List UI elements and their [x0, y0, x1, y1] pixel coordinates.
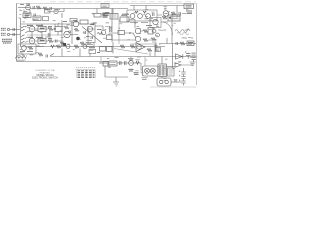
wire: [97, 9, 113, 14]
cathode box: [107, 35, 113, 40]
line cap Cb: [125, 61, 127, 65]
resistor R25: [136, 62, 140, 65]
wire vertical x172: [171, 14, 173, 57]
tube V9b: [135, 36, 140, 41]
top-left oscillator cluster: [18, 4, 48, 18]
dark label: [186, 11, 192, 13]
wire: [177, 9, 192, 18]
tube V7: [73, 21, 79, 27]
wire y44: [130, 43, 155, 45]
wire: [10, 29, 20, 31]
wire: [26, 47, 44, 57]
capacitor C15: [46, 55, 48, 58]
wire: [176, 6, 178, 9]
multivibrator box: [127, 6, 184, 23]
wire: [134, 6, 162, 16]
stage box B2: [38, 39, 46, 44]
connector marks: [186, 5, 192, 7]
resistor box R12: [80, 20, 88, 24]
extra cap: [69, 23, 93, 34]
capacitor C10: [84, 31, 86, 34]
wire y35: [27, 34, 62, 36]
resistor R6: [135, 11, 146, 13]
label 4M: [89, 47, 95, 49]
resistor R3: [43, 7, 48, 10]
resistor R19: [180, 42, 185, 45]
voltage label B: [134, 73, 139, 75]
top-middle components: [94, 4, 118, 20]
tube V11: [22, 46, 27, 51]
ext trig label block: [2, 39, 12, 43]
wire vertical x72: [72, 20, 88, 44]
fuse marks: [110, 63, 116, 65]
resistor R15: [97, 33, 103, 35]
wire: [112, 20, 157, 41]
stage box upper: [86, 43, 94, 47]
label VERT INPUT: [1, 28, 6, 30]
rectifier tube V15: [129, 61, 134, 66]
potentiometer R2: [23, 13, 31, 18]
input jack J1: [1, 28, 20, 31]
capacitor C5: [179, 12, 181, 16]
tube V4: [163, 11, 169, 17]
capacitor C4: [153, 13, 155, 16]
resistor R23: [74, 45, 79, 48]
label EXT TRIG INPUT: [2, 39, 12, 43]
extra marks: [63, 21, 102, 37]
wire bus y56: [50, 56, 197, 58]
table header dashes: [76, 67, 95, 69]
squiggle lower: [177, 32, 189, 35]
wire vertical x116: [115, 77, 117, 82]
sync box: [45, 10, 51, 14]
resistor R1: [36, 6, 41, 9]
tube V9a: [135, 28, 140, 33]
tube element marks: [31, 29, 34, 41]
switch contacts col2: [25, 26, 28, 43]
table text rows: [78, 71, 95, 78]
border frame left: [16, 4, 18, 62]
power supply row: [99, 49, 196, 80]
wire y77: [105, 76, 128, 78]
border frame bottom-left: [17, 61, 110, 63]
wire: [62, 24, 95, 35]
chassis ground right: [190, 62, 196, 66]
tube V1: [26, 5, 31, 10]
wire: [161, 21, 168, 23]
section divider vertical x113: [112, 42, 114, 54]
value labels speckle: [18, 5, 193, 81]
tube V12: [66, 45, 70, 49]
transformer top lead: [161, 57, 163, 65]
wire: [117, 62, 141, 64]
plug pin 2: [165, 80, 168, 83]
rectifier D3: [176, 54, 183, 59]
capacitor box C12: [148, 28, 153, 35]
resistor R7: [171, 12, 176, 15]
diagonal feed wire: [114, 49, 148, 55]
box marks: [170, 17, 179, 19]
coupling cap C7: [13, 33, 15, 36]
border frame right: [196, 4, 198, 86]
wire 117v: [99, 62, 109, 64]
top label marks: [102, 5, 108, 7]
resistor R21: [38, 53, 43, 56]
wire down to lamps: [141, 63, 143, 70]
resistor R17: [120, 45, 125, 48]
tube V3c: [146, 14, 151, 19]
center-right section: [89, 9, 157, 54]
tube V6 grid: [65, 34, 69, 36]
resistor R10: [48, 40, 53, 43]
wire vertical x105: [104, 66, 106, 77]
part marks: [136, 60, 140, 62]
diode bar: [182, 54, 184, 58]
center tube cluster: [60, 19, 103, 47]
resistor R20: [28, 47, 33, 50]
tube V3b: [138, 14, 143, 19]
resistor R16a: [143, 30, 148, 33]
stage box: [150, 18, 161, 28]
a label: [97, 52, 100, 54]
plus marks: [159, 43, 161, 45]
svg-text:ELECTRONIC SWITCH: ELECTRONIC SWITCH: [32, 77, 58, 80]
coil marks: [17, 55, 26, 57]
coil hatch: [16, 60, 26, 61]
wire y33: [113, 32, 134, 34]
tube column circle A: [152, 29, 156, 33]
far top-right output stage: [162, 4, 194, 19]
resistor R4: [61, 13, 63, 18]
column zigzag: [151, 38, 156, 41]
bottom-left stage: [16, 44, 55, 61]
capacitor C11: [91, 36, 93, 39]
ground symbol: [113, 82, 119, 86]
pot wiper marks: [25, 14, 30, 17]
wire vertical x112: [111, 9, 113, 43]
wire top bus y8.5: [30, 8, 128, 10]
wire y5.5: [130, 5, 184, 7]
dark marks in box: [20, 51, 33, 53]
wire: [48, 9, 64, 12]
output triangle amp: [136, 43, 145, 52]
wire vertical x119: [118, 19, 120, 44]
wire bus y46.5: [20, 46, 165, 48]
tube V3a: [130, 14, 135, 19]
capacitor C2: [34, 14, 36, 17]
ladder plus marks: [179, 71, 180, 81]
border frame bottom-right: [150, 86, 197, 88]
wire stub down: [149, 53, 151, 57]
stage box B3: [55, 27, 62, 32]
relay box K1: [118, 31, 125, 35]
power bus stubs: [101, 57, 145, 67]
capacitor C14: [176, 42, 178, 45]
wire vertical x20.5: [20, 18, 22, 47]
tube V2: [54, 9, 58, 13]
wire vertical x155: [154, 44, 156, 57]
lamp label: [142, 78, 148, 80]
ladder wire: [183, 68, 185, 86]
switch box SW2: [103, 62, 108, 67]
page top edge dashes: [50, 1, 196, 3]
right mid section: [150, 14, 194, 57]
top label box: [101, 4, 109, 8]
AC plug P1: [157, 78, 171, 86]
fuse box F1: [109, 61, 117, 66]
tube label: [128, 58, 134, 60]
wire: [35, 29, 62, 41]
lower middle row parts: [120, 43, 161, 57]
wire stub: [62, 49, 90, 57]
box label OUT: [187, 41, 194, 46]
transformer bottom lead: [161, 77, 163, 79]
table columns: [77, 70, 96, 78]
wire vertical x95: [94, 22, 96, 43]
lamp crosses: [145, 69, 154, 72]
coupling cap C6: [13, 28, 15, 31]
filter cap C17 stack: [192, 53, 196, 60]
sync amp stage: [45, 7, 65, 18]
wire y24: [21, 23, 63, 25]
choke L1: [110, 26, 112, 32]
connector box J3: [184, 4, 194, 9]
top cluster marks: [34, 18, 40, 20]
extra parts row: [64, 26, 79, 31]
row stubs: [32, 24, 58, 39]
transformer T1: [158, 64, 167, 77]
stage box B1: [38, 27, 46, 32]
dark label: [122, 14, 152, 25]
border frame top: [16, 3, 197, 5]
tube V13: [83, 45, 87, 49]
parts below: [147, 49, 152, 52]
junction blob: [76, 37, 80, 41]
wire marks: [174, 80, 178, 81]
voltage label A: [129, 69, 134, 71]
B1 marks: [39, 28, 45, 30]
capacitor C13: [155, 43, 158, 52]
rectifier D4: [175, 63, 181, 68]
gate box: [120, 17, 129, 22]
filter cap C16: [186, 54, 191, 56]
pilot lamp PL1: [145, 68, 150, 73]
bottom-right lower band: [105, 66, 186, 86]
junction dot: [54, 28, 56, 30]
label: [20, 3, 30, 6]
capacitor C8: [48, 33, 50, 37]
dark marks: [188, 43, 193, 45]
box outline: [127, 10, 157, 21]
left switch column: [21, 16, 63, 47]
box cluster lower: [100, 47, 106, 52]
resistor R18: [130, 45, 135, 48]
dark component blob: [63, 43, 66, 46]
wire vertical x62: [61, 20, 63, 47]
tube V6: [64, 31, 70, 37]
B2 marks: [39, 40, 45, 42]
wire: [167, 66, 175, 68]
wire: [10, 34, 20, 36]
small box w marks: [89, 50, 96, 54]
resistor R23b: [51, 45, 55, 48]
title block: [32, 69, 58, 80]
wire: [18, 7, 30, 9]
transformer windings: [159, 65, 165, 76]
label under box: [130, 22, 148, 24]
switch contacts: [21, 26, 25, 43]
tube V10: [153, 19, 158, 24]
jack J2: [7, 33, 9, 35]
parts table: [76, 68, 96, 78]
resistor R14: [80, 42, 85, 45]
table top rule: [76, 68, 96, 70]
bias box: [156, 48, 161, 52]
label above gate: [121, 15, 127, 17]
coil L2: [16, 57, 26, 59]
resistor R9: [48, 28, 53, 31]
box cluster lower2: [107, 47, 113, 52]
shield box: [168, 68, 175, 76]
capacitor ladder C18: [181, 72, 185, 83]
bias marks: [157, 49, 160, 51]
tube grid lines: [165, 13, 168, 15]
resistor R16b: [143, 39, 148, 42]
tube column circle B: [156, 33, 160, 37]
line cap Ca: [120, 61, 122, 65]
jack J1: [7, 28, 9, 30]
label 10K: [103, 13, 110, 17]
junction dot: [129, 32, 131, 34]
pilot lamp PL2: [150, 68, 155, 73]
mid-bottom component row: [51, 43, 96, 57]
switch marks: [112, 15, 117, 17]
switch lever: [50, 54, 54, 57]
tube over triangle: [137, 45, 141, 49]
resistor R5: [94, 14, 101, 18]
tube V5a: [29, 26, 35, 32]
plug pin 1: [160, 80, 163, 83]
wire vertical x55: [54, 24, 56, 29]
grid box: [70, 19, 77, 23]
capacitor C1: [33, 6, 35, 9]
resistor R8: [162, 16, 167, 19]
tube V8: [87, 26, 92, 31]
wire: [95, 26, 103, 30]
shield marks: [169, 70, 174, 74]
column marks: [152, 28, 162, 42]
tube V5b: [29, 38, 35, 44]
stage box marks: [87, 44, 93, 46]
wire vertical x172.5: [172, 57, 174, 69]
capacitor C9: [56, 40, 58, 43]
box top right: [168, 15, 180, 21]
stage box: [18, 44, 36, 54]
switch SW1: [110, 14, 118, 20]
diagonal wire: [82, 27, 102, 44]
wire bus y43.5 right: [160, 43, 196, 45]
wire vertical x167: [166, 38, 168, 44]
wire y82: [171, 81, 181, 83]
label HORIZ INPUT: [1, 33, 6, 35]
resistor R22: [56, 45, 61, 48]
wire y65: [181, 64, 194, 66]
resistor R13: [60, 42, 65, 45]
top cluster box 2: [43, 17, 49, 21]
wire: [188, 53, 193, 62]
junction dot: [169, 17, 171, 19]
wire: [24, 10, 30, 14]
capacitor C3: [50, 7, 52, 10]
curved wire: [163, 22, 173, 35]
top cluster box: [33, 16, 41, 21]
row label marks: [27, 25, 52, 40]
squiggle resistor row: [175, 30, 190, 33]
input jack J2: [1, 33, 20, 36]
cap plus marks: [185, 51, 191, 57]
tube V14: [101, 30, 106, 35]
lamp assembly box: [143, 66, 159, 76]
